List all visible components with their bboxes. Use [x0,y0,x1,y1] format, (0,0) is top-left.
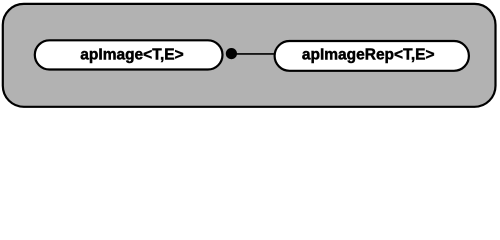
node junction dot [226,48,237,59]
svg-text:apImageRep<T,E>: apImageRep<T,E> [302,47,435,64]
class bubble apImageRep [275,41,469,71]
wire [231,53,275,55]
svg-text:apImage<T,E>: apImage<T,E> [80,47,183,64]
class bubble apImage [35,40,223,69]
outer container rounded rectangle [3,4,496,107]
